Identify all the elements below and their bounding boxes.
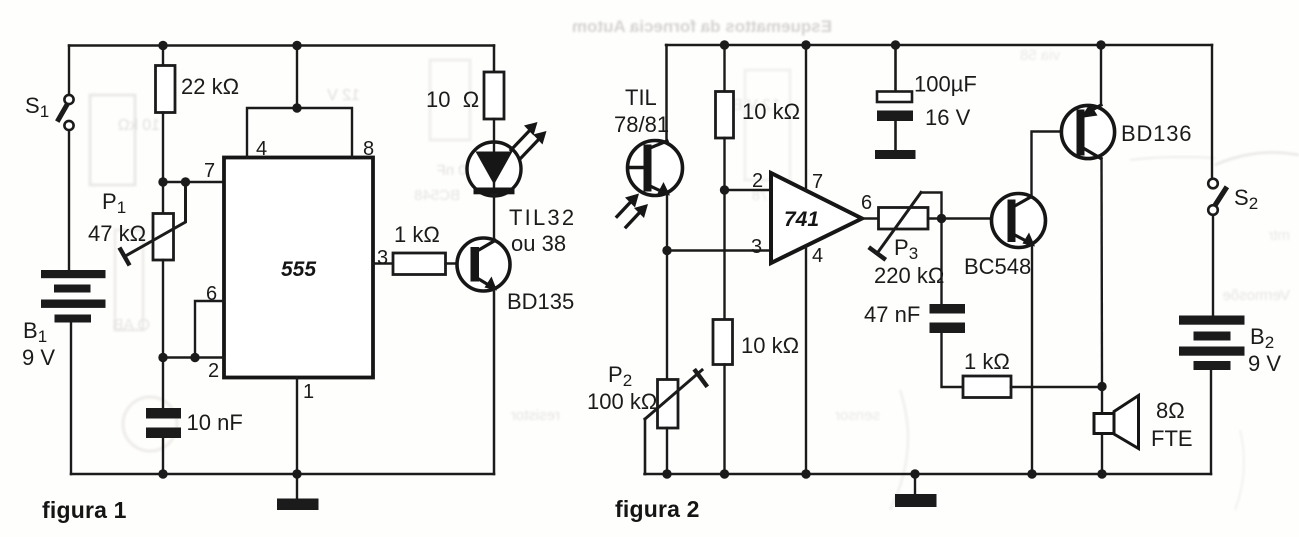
svg-text:2: 2 bbox=[752, 170, 763, 192]
wire 10k lower to bottom rail bbox=[723, 365, 725, 475]
capacitor 47 nF bbox=[930, 304, 966, 333]
node hat center bbox=[292, 103, 301, 112]
P3 wiper arm bbox=[871, 193, 942, 259]
svg-text:resistor: resistor bbox=[511, 407, 560, 424]
svg-text:P1: P1 bbox=[102, 189, 126, 217]
svg-text:TIL32: TIL32 bbox=[509, 205, 576, 230]
svg-text:via 58: via 58 bbox=[1020, 47, 1060, 64]
wire rail right corner to S2 bbox=[1211, 45, 1213, 179]
svg-text:B2: B2 bbox=[1250, 324, 1274, 352]
svg-text:1 kΩ: 1 kΩ bbox=[964, 349, 1010, 374]
resistor 10 kOhm upper bbox=[716, 92, 734, 139]
svg-text:P2: P2 bbox=[608, 362, 632, 390]
node top rail BD136 bbox=[1096, 40, 1105, 49]
svg-text:9 V: 9 V bbox=[22, 345, 55, 370]
TIL light arrows bbox=[617, 194, 648, 228]
svg-text:1 kΩ: 1 kΩ bbox=[394, 222, 440, 247]
svg-text:3: 3 bbox=[751, 236, 762, 258]
wire pin 7 bbox=[163, 181, 224, 183]
svg-text:8: 8 bbox=[363, 138, 374, 160]
svg-text:FTE: FTE bbox=[1151, 426, 1193, 451]
svg-text:10 kΩ: 10 kΩ bbox=[741, 333, 799, 358]
phototransistor TIL 78/81 bbox=[628, 141, 683, 196]
wire BC548 emitter to bottom rail bbox=[1031, 244, 1033, 474]
wire BD136 collector down bbox=[1100, 159, 1103, 387]
node bottom rail 10k bbox=[720, 469, 729, 478]
wire speaker branch bbox=[1101, 387, 1103, 475]
wire TIL emitter down bbox=[666, 194, 668, 380]
resistor 22 kOhm bbox=[156, 66, 176, 113]
wire 10nF to bottom rail bbox=[162, 438, 164, 474]
resistor 10 kOhm lower bbox=[713, 320, 733, 365]
node top rail center bbox=[292, 41, 301, 50]
wire bottom rail fig1 bbox=[71, 473, 494, 476]
svg-text:1: 1 bbox=[303, 381, 314, 403]
wire S1 to battery B1 bbox=[68, 131, 70, 272]
wire top rail right corner to 10 Ohm bbox=[493, 46, 496, 73]
capacitor 10 nF bbox=[146, 408, 181, 438]
wire 10k to pin2 node bbox=[723, 138, 725, 320]
node bottom rail P2 bbox=[662, 469, 671, 478]
svg-text:10 kΩ: 10 kΩ bbox=[742, 99, 800, 124]
wire bottom rail fig2 bbox=[645, 473, 1212, 476]
wire base BC548 bbox=[942, 217, 1009, 219]
wire 22k to pin7 node bbox=[162, 113, 164, 183]
node pin2 branch bbox=[720, 185, 729, 194]
wire top rail fig2 bbox=[666, 44, 1212, 47]
switch S2 bbox=[1208, 179, 1225, 215]
LED TIL32 bbox=[467, 119, 521, 241]
switch S1 bbox=[59, 95, 74, 130]
svg-text:figura 2: figura 2 bbox=[615, 496, 700, 522]
speaker 8 Ohm FTE bbox=[1094, 396, 1139, 449]
wire BD136 emitter to top rail bbox=[1100, 45, 1102, 105]
svg-text:6: 6 bbox=[861, 192, 872, 214]
node bottom rail pin1 bbox=[292, 469, 301, 478]
wire 47nF to 1k bbox=[942, 333, 964, 387]
svg-text:3: 3 bbox=[377, 247, 388, 269]
transistor BD136 bbox=[1061, 104, 1114, 159]
wire 1k to speaker node bbox=[1011, 386, 1102, 388]
svg-text:4: 4 bbox=[812, 245, 823, 267]
svg-text:10 kΩ: 10 kΩ bbox=[118, 117, 160, 134]
svg-text:100 kΩ: 100 kΩ bbox=[587, 389, 657, 414]
node bottom rail pin4 bbox=[801, 469, 810, 478]
svg-text:Vermosõe: Vermosõe bbox=[1222, 287, 1290, 304]
IC 555 box bbox=[224, 158, 373, 378]
svg-text:B1: B1 bbox=[23, 318, 47, 346]
wire left branch top (rail to S1) bbox=[68, 46, 70, 95]
wire op-amp pin 3 bbox=[667, 249, 771, 251]
svg-text:47 nF: 47 nF bbox=[864, 302, 920, 327]
node pin3 branch bbox=[662, 246, 671, 255]
svg-text:555: 555 bbox=[281, 258, 316, 281]
wire P3 to output node bbox=[928, 217, 942, 219]
node bottom rail ground bbox=[910, 469, 919, 478]
wire pin 6 stub bbox=[195, 301, 224, 358]
svg-text:BD135: BD135 bbox=[507, 289, 574, 314]
wire pin7 node to P1 bbox=[162, 182, 164, 214]
svg-text:BD136: BD136 bbox=[1121, 121, 1192, 146]
battery B1 bbox=[41, 270, 106, 323]
wire S2 to B2 bbox=[1212, 215, 1214, 316]
wire top rail fig1 bbox=[69, 44, 494, 47]
capacitor 100uF 16V bbox=[875, 92, 916, 160]
svg-text:figura 1: figura 1 bbox=[42, 497, 127, 523]
P1 wiper arm bbox=[121, 184, 186, 264]
wire pin 3 bbox=[373, 262, 393, 264]
svg-text:12 V: 12 V bbox=[327, 87, 360, 104]
svg-text:741: 741 bbox=[784, 208, 819, 231]
svg-text:16 V: 16 V bbox=[925, 105, 971, 130]
resistor 10 Ohm bbox=[484, 72, 504, 119]
wire BD135 emitter to bottom rail bbox=[493, 288, 496, 474]
LED light arrows bbox=[511, 122, 547, 159]
wire hat to top rail bbox=[296, 46, 298, 109]
wire rail to TIL collector bbox=[665, 45, 668, 143]
svg-text:78/81: 78/81 bbox=[614, 112, 669, 137]
wire 47nF branch bbox=[940, 219, 942, 305]
svg-text:47 kΩ: 47 kΩ bbox=[88, 221, 146, 246]
wire B1 to bottom rail bbox=[70, 323, 72, 475]
svg-text:100µF: 100µF bbox=[914, 72, 977, 97]
svg-text:7: 7 bbox=[812, 171, 823, 193]
wire pin 7 vertical top bbox=[805, 45, 807, 191]
wire pins 4-8 hat bbox=[247, 108, 352, 158]
node pin7 wiper bbox=[181, 177, 190, 186]
wire 1k to BD135 base bbox=[446, 262, 472, 264]
svg-text:sensor: sensor bbox=[835, 407, 880, 424]
wire pin 4 vertical bottom bbox=[805, 246, 807, 474]
node bottom rail BC548 bbox=[1027, 469, 1036, 478]
potentiometer P2 body bbox=[658, 380, 679, 429]
potentiometer P3 body bbox=[879, 208, 929, 230]
svg-text:BC548: BC548 bbox=[414, 187, 460, 204]
svg-text:TIL: TIL bbox=[625, 85, 657, 110]
svg-text:220 kΩ: 220 kΩ bbox=[874, 263, 944, 288]
node bottom rail 10nF bbox=[158, 469, 167, 478]
svg-text:7: 7 bbox=[204, 160, 215, 182]
node speaker branch bbox=[1097, 382, 1106, 391]
node pin2 left bbox=[158, 353, 167, 362]
P2 wiper arm bbox=[645, 370, 706, 474]
wire rail to 100uF bbox=[894, 45, 897, 92]
transistor BC548 bbox=[992, 194, 1046, 248]
ground fig2 bbox=[895, 474, 937, 507]
svg-text:22 kΩ: 22 kΩ bbox=[181, 74, 239, 99]
svg-text:4: 4 bbox=[256, 138, 267, 160]
wire pin2 node to 10nF bbox=[162, 358, 164, 409]
svg-text:6: 6 bbox=[206, 283, 217, 305]
wire P1 to pin2 node bbox=[162, 260, 164, 358]
wire op-amp pin 2 bbox=[725, 189, 772, 191]
wire pin 1 to bottom rail bbox=[296, 378, 298, 475]
node pin7 left bbox=[158, 177, 167, 186]
resistor 1 kOhm fig2 bbox=[963, 376, 1011, 398]
wire rail to 22k bbox=[162, 46, 164, 66]
node top rail pin7 bbox=[801, 40, 810, 49]
svg-text:mtr: mtr bbox=[1268, 227, 1290, 244]
node pin2 mid bbox=[190, 353, 199, 362]
node top rail 10k bbox=[720, 40, 729, 49]
potentiometer P1 body bbox=[153, 214, 174, 261]
ground fig1 bbox=[277, 474, 319, 510]
battery B2 bbox=[1179, 316, 1245, 371]
wire P2 to bottom rail bbox=[666, 428, 668, 474]
wire pin 6 to P3 bbox=[862, 217, 879, 219]
wire B2 to bottom rail bbox=[1210, 370, 1212, 474]
resistor 1 kOhm fig1 bbox=[393, 253, 446, 275]
svg-text:ou 38: ou 38 bbox=[511, 231, 566, 256]
svg-text:9 V: 9 V bbox=[1248, 351, 1281, 376]
svg-text:10 nF: 10 nF bbox=[187, 410, 243, 435]
wire BC548 collector to BD136 base bbox=[1032, 132, 1077, 197]
svg-text:8Ω: 8Ω bbox=[1156, 398, 1185, 423]
node top rail / 22k bbox=[158, 41, 167, 50]
svg-text:S2: S2 bbox=[1234, 185, 1258, 213]
svg-text:10 Ω: 10 Ω bbox=[426, 87, 479, 112]
wire rail to 10k bbox=[723, 45, 725, 92]
svg-text:P3: P3 bbox=[894, 235, 918, 263]
node P3 output bbox=[937, 214, 946, 223]
svg-text:BC548: BC548 bbox=[964, 254, 1031, 279]
svg-text:Esquemattos da fornecia Autom: Esquemattos da fornecia Autom bbox=[572, 17, 832, 36]
op-amp 741 bbox=[771, 173, 862, 263]
svg-text:2: 2 bbox=[208, 360, 219, 382]
wire pin 2 bbox=[163, 356, 224, 358]
node bottom rail speaker bbox=[1097, 469, 1106, 478]
node top rail 100uF bbox=[891, 40, 900, 49]
transistor BD135 bbox=[457, 238, 510, 291]
svg-text:S1: S1 bbox=[25, 93, 49, 121]
